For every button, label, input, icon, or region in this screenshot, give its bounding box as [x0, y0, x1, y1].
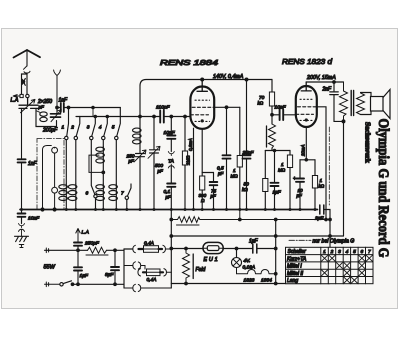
trimmer capacitor 2x250pF: [19, 98, 38, 106]
500pF chain: [153, 115, 156, 118]
coil L2: [68, 185, 77, 189]
cathode wire tube2 with 20mA label: [305, 127, 307, 160]
coil K1: [133, 128, 142, 132]
capacitor 25pF: [246, 80, 248, 155]
svg-text:Mittel II: Mittel II: [287, 271, 304, 277]
svg-text:1: 1: [323, 249, 326, 255]
vertical feeder x171: [170, 210, 172, 289]
svg-text:μF: μF: [217, 171, 223, 176]
transformer core: [351, 91, 353, 116]
capacitor 1nF (antenna series): [57, 107, 60, 109]
L.A arrow: [13, 95, 20, 98]
screen wire tube1: [214, 106, 240, 108]
svg-text:μF: μF: [165, 195, 171, 200]
coil L1: [59, 185, 68, 189]
output transformer primary: [340, 82, 348, 121]
coil L3 mid: [96, 147, 105, 151]
coil L5: [109, 185, 118, 189]
fuse row 2: [138, 269, 141, 276]
capacitor 1uF: [274, 151, 276, 182]
svg-text:1823: 1823: [244, 278, 255, 284]
svg-text:Lang: Lang: [287, 278, 298, 284]
svg-text:2nF: 2nF: [322, 87, 333, 93]
heater winding bumps: [237, 268, 276, 274]
heater wire tube1 with 0,6mA label: [193, 128, 195, 209]
svg-text:8μF: 8μF: [105, 272, 114, 278]
capacitor 0,5uF: [226, 107, 228, 154]
main ground bus: [20, 209, 318, 211]
anode supply wire y219 with choke: [171, 217, 330, 223]
svg-text:1: 1: [62, 125, 65, 131]
vertical x276: [275, 220, 277, 284]
antenna plug connector: [24, 66, 31, 73]
capacitor 1uF heater: [253, 244, 257, 253]
switch 1: [67, 108, 69, 137]
switch table: [286, 247, 374, 283]
capacitor 8uF bottom: [111, 250, 119, 284]
speaker connection wires: [361, 93, 372, 115]
loop antenna inside: [43, 146, 55, 210]
svg-text:MΩ: MΩ: [231, 174, 239, 179]
node wire y150: [265, 150, 290, 152]
svg-text:Schalter: Schalter: [288, 249, 307, 255]
svg-text:Kurz+TA: Kurz+TA: [287, 256, 307, 262]
ground plug connector: [19, 224, 25, 237]
wire antenna downlead: [26, 73, 28, 94]
svg-text:0,6mA: 0,6mA: [188, 138, 193, 151]
rectifier EU1: [203, 242, 223, 253]
tube U2 anode: [301, 82, 311, 91]
ground chain 10nF below bus: [21, 210, 23, 213]
svg-text:250pF: 250pF: [84, 241, 100, 247]
variable capacitor 250pF: [136, 154, 145, 157]
ground symbol: [15, 236, 29, 247]
svg-text:Ω: Ω: [201, 198, 205, 203]
capacitor 1nF (to ground column): [21, 113, 23, 210]
capacitor 2uF series in bus: [320, 205, 324, 214]
L.A tap arrow bottom: [76, 229, 80, 242]
coil L4: [96, 185, 105, 189]
svg-text:RENS 1823 d: RENS 1823 d: [282, 57, 333, 66]
svg-text:kΩ: kΩ: [319, 184, 325, 189]
antenna tank coil: [36, 108, 57, 126]
cathode node: [300, 159, 315, 161]
switch 6: [91, 140, 95, 195]
svg-text:200pF: 200pF: [42, 128, 58, 134]
wire W1: [64, 107, 120, 109]
svg-text:2: 2: [330, 249, 334, 255]
svg-text:RENS 1884: RENS 1884: [160, 58, 218, 67]
svg-text:10nF: 10nF: [275, 105, 287, 111]
svg-text:MΩ: MΩ: [278, 168, 286, 173]
terminal square L.A: [20, 94, 23, 97]
switch 4: [104, 117, 108, 137]
svg-text:kΩ: kΩ: [258, 101, 264, 106]
switch 7: [127, 184, 131, 196]
tube U2 cathode: [305, 118, 308, 121]
svg-text:L.A: L.A: [11, 98, 19, 104]
speaker return line: [343, 121, 345, 236]
svg-text:5: 5: [112, 125, 115, 131]
resistor 70k: [271, 80, 273, 93]
svg-text:20mA: 20mA: [301, 144, 306, 157]
speaker: [371, 97, 384, 112]
tube U1 anode: [197, 80, 207, 92]
junction dots top bus: [201, 78, 204, 81]
HF choke with core: [266, 126, 268, 147]
bias network wire: [45, 249, 125, 251]
fuse row 1: [124, 248, 133, 250]
field coil Feld: [185, 247, 188, 250]
svg-text:μF: μF: [296, 193, 302, 198]
svg-text:L.A: L.A: [82, 230, 89, 236]
svg-text:1MΩ: 1MΩ: [186, 155, 191, 165]
TA pickup connector: [168, 152, 174, 156]
output transformer secondary: [357, 93, 365, 115]
variable capacitor 200pF: [51, 114, 61, 117]
svg-text:4: 4: [99, 125, 102, 131]
svg-text:1884: 1884: [261, 278, 272, 284]
shield box dash-dot: [37, 139, 64, 210]
svg-text:200V, 15mA: 200V, 15mA: [306, 75, 336, 81]
svg-text:TA: TA: [168, 159, 174, 165]
variable capacitor 500pF: [150, 150, 159, 153]
svg-text:4: 4: [346, 249, 349, 255]
svg-text:140V, 0,4mA: 140V, 0,4mA: [213, 74, 244, 80]
capacitor 1uF bottom: [74, 250, 82, 284]
capacitor 110pF: [160, 111, 164, 123]
electrolytic 10uF: [299, 160, 301, 178]
dash-dot boundary: [328, 127, 330, 205]
svg-text:3: 3: [338, 249, 341, 255]
svg-text:110pF: 110pF: [156, 105, 171, 111]
second antenna input fork: [54, 70, 61, 108]
plug row 3: [124, 284, 133, 288]
svg-text:6: 6: [360, 249, 363, 255]
svg-text:Mittel I: Mittel I: [287, 264, 302, 270]
tube U1 RENS 1884: [190, 87, 214, 129]
bottom heater return wire: [171, 283, 330, 285]
switch 3: [92, 117, 96, 137]
wire arrester branch: [22, 74, 28, 94]
antenna: [14, 50, 41, 66]
wire W2 grid wire: [76, 116, 159, 118]
tube U2 grids: [300, 98, 313, 100]
svg-text:1μF: 1μF: [249, 239, 259, 245]
resistor 50k: [264, 151, 266, 179]
svg-text:Olympia G und Record G: Olympia G und Record G: [375, 119, 391, 258]
svg-text:Sachsenwerk: Sachsenwerk: [364, 122, 371, 163]
resistor 1 Mohm (screen): [239, 107, 241, 155]
svg-text:+: +: [293, 176, 296, 182]
anode wire 200V: [306, 81, 343, 83]
heater row EU1: [171, 248, 275, 250]
capacitor 2nF: [333, 82, 335, 91]
svg-text:0,4A: 0,4A: [144, 241, 154, 247]
svg-text:pF: pF: [128, 159, 135, 164]
screen wire tube2: [317, 107, 326, 220]
svg-text:pF: pF: [210, 194, 217, 199]
resistor 1k cathode: [314, 160, 316, 176]
spare plug row 2: [124, 265, 133, 267]
svg-text:pF: pF: [157, 169, 164, 174]
svg-text:4V.: 4V.: [244, 258, 251, 264]
svg-text:25pF: 25pF: [242, 150, 255, 156]
resistor zigzag with underline: [88, 247, 107, 253]
svg-text:0,4A: 0,4A: [147, 277, 157, 283]
tube U1 grids: [195, 99, 210, 101]
switch 5: [117, 108, 121, 137]
svg-text:1μF: 1μF: [80, 273, 89, 279]
svg-text:1μF: 1μF: [273, 190, 282, 196]
svg-text:kΩ: kΩ: [242, 187, 248, 192]
wire: top bus 140V: [140, 80, 272, 87]
dash-dot note line: [289, 239, 311, 241]
TA chain: [170, 115, 173, 118]
svg-text:EU1: EU1: [204, 257, 220, 263]
svg-text:5: 5: [353, 249, 356, 255]
terminal circle: [26, 94, 29, 97]
capacitor 10nF: [167, 136, 175, 139]
svg-text:10nF: 10nF: [28, 216, 40, 222]
tube U1 cathode: [201, 119, 204, 122]
dial lamp: [235, 247, 238, 250]
mains switch: [45, 283, 60, 285]
svg-text:1nF: 1nF: [59, 98, 69, 104]
W1-W2 tie: [92, 108, 94, 117]
svg-text:7: 7: [121, 191, 124, 197]
bus junction dots: [20, 208, 317, 211]
svg-text:2μF: 2μF: [314, 216, 324, 222]
capacitor 0,1uF: [167, 184, 175, 187]
svg-text:1nF: 1nF: [28, 161, 38, 167]
mains column x124: [123, 249, 125, 288]
svg-text:Feld: Feld: [196, 267, 206, 273]
resistor 1 Mohm (grid leak tube1): [184, 115, 187, 118]
tuning chain: wire from top bus: [139, 86, 141, 127]
svg-text:3: 3: [87, 125, 90, 131]
resistor 1 Mohm (grid tube2): [289, 151, 291, 156]
tube U2 RENS 1823d: [296, 86, 317, 127]
resistor 390 ohm: [200, 176, 205, 190]
lightning arrester: [22, 79, 26, 86]
svg-text:nur bei Olympia G: nur bei Olympia G: [313, 239, 355, 245]
cathode network tube1: [201, 122, 203, 176]
wire y236: [171, 235, 343, 237]
switch 2: [76, 117, 80, 137]
table X marks: [322, 255, 373, 283]
svg-text:10nF: 10nF: [164, 130, 176, 136]
capacitor 75pF: [213, 173, 215, 182]
capacitor 250pF: [74, 243, 82, 246]
svg-text:6: 6: [86, 191, 89, 197]
svg-text:2: 2: [70, 125, 74, 131]
svg-text:55W: 55W: [44, 265, 56, 271]
svg-text:7: 7: [368, 249, 371, 255]
grid capacitor 10nF tube2: [272, 114, 296, 116]
